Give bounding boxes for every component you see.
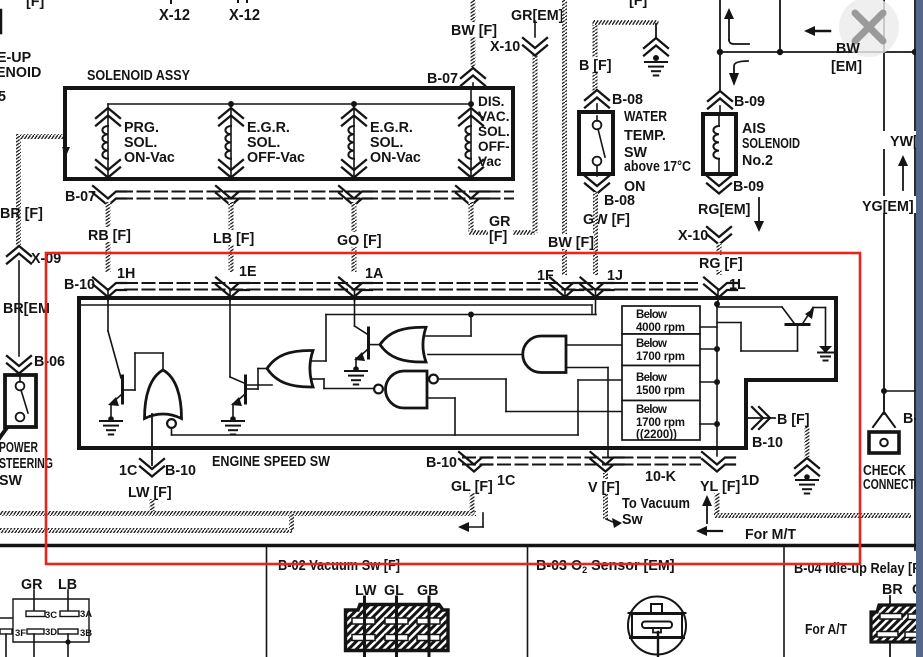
svg-text:[F]: [F] <box>629 0 647 9</box>
svg-text:B-10: B-10 <box>752 435 783 451</box>
svg-text:OFF-Vac: OFF-Vac <box>247 150 305 166</box>
svg-text:BR [F]: BR [F] <box>0 206 43 222</box>
svg-text:OFF-: OFF- <box>478 139 510 154</box>
svg-text:E.G.R.: E.G.R. <box>247 120 290 136</box>
svg-text:Below: Below <box>636 309 667 321</box>
svg-text:[EM]: [EM] <box>831 59 862 75</box>
svg-text:1500 rpm: 1500 rpm <box>636 385 685 397</box>
svg-text:ENOID: ENOID <box>0 65 41 81</box>
svg-text:10-K: 10-K <box>645 469 677 485</box>
svg-text:No.2: No.2 <box>742 153 773 169</box>
svg-text:LW [F]: LW [F] <box>128 485 172 501</box>
svg-text:CONNECTO: CONNECTO <box>863 477 923 493</box>
svg-text:above 17°C: above 17°C <box>624 159 691 175</box>
svg-text:ON-Vac: ON-Vac <box>370 150 421 166</box>
svg-text:For M/T: For M/T <box>745 527 796 543</box>
svg-text:[F]: [F] <box>26 0 44 10</box>
svg-text:RB [F]: RB [F] <box>88 228 131 244</box>
svg-text:ON: ON <box>624 179 645 195</box>
svg-text:5: 5 <box>0 89 6 105</box>
svg-text:TEMP.: TEMP. <box>624 128 666 144</box>
svg-text:SOL.: SOL. <box>247 135 280 151</box>
svg-text:SOLENOID ASSY: SOLENOID ASSY <box>87 68 190 84</box>
svg-text:1700 rpm: 1700 rpm <box>636 351 685 363</box>
svg-text:GR[EM]: GR[EM] <box>511 8 563 24</box>
svg-text:SOL.: SOL. <box>370 135 403 151</box>
svg-text:YG[EM]: YG[EM] <box>862 199 914 215</box>
svg-text:ON-Vac: ON-Vac <box>124 150 175 166</box>
svg-text:LB [F]: LB [F] <box>213 231 254 247</box>
svg-text:B-10: B-10 <box>165 463 196 479</box>
svg-text:1D: 1D <box>741 473 759 489</box>
svg-text:GL: GL <box>384 583 404 599</box>
svg-text:BW [F]: BW [F] <box>548 235 594 251</box>
svg-text:X-12: X-12 <box>159 7 190 24</box>
svg-text:1C: 1C <box>119 463 137 479</box>
svg-text:1J: 1J <box>607 268 623 284</box>
svg-text:3B: 3B <box>80 628 92 639</box>
svg-text:X-10: X-10 <box>678 228 708 244</box>
svg-text:3D: 3D <box>45 627 57 638</box>
svg-text:SW: SW <box>0 473 23 489</box>
svg-text:AIS: AIS <box>742 121 766 137</box>
svg-text:GO [F]: GO [F] <box>337 233 381 249</box>
svg-text:X-12: X-12 <box>229 7 260 24</box>
svg-text:DIS.: DIS. <box>478 94 504 109</box>
svg-text:E-UP: E-UP <box>0 50 32 66</box>
svg-text:SOL.: SOL. <box>124 135 157 151</box>
svg-text:RG[EM]: RG[EM] <box>698 202 750 218</box>
svg-text:B-09: B-09 <box>733 179 764 195</box>
svg-text:Below: Below <box>636 404 667 416</box>
svg-text:1E: 1E <box>239 264 257 280</box>
svg-text:GR: GR <box>21 577 43 593</box>
svg-text:B-06: B-06 <box>34 354 65 370</box>
svg-text:GR: GR <box>489 214 511 230</box>
svg-text:4000 rpm: 4000 rpm <box>636 322 685 334</box>
svg-text:[F]: [F] <box>489 229 507 245</box>
svg-text:B-08: B-08 <box>604 193 635 209</box>
svg-text:YL [F]: YL [F] <box>700 479 740 495</box>
svg-text:3F: 3F <box>15 628 26 639</box>
svg-text:VAC.: VAC. <box>478 109 509 124</box>
svg-text:Sw: Sw <box>622 512 644 528</box>
svg-text:B [F]: B [F] <box>579 58 612 74</box>
svg-text:B-10: B-10 <box>64 277 95 293</box>
svg-text:BW [F]: BW [F] <box>451 23 497 39</box>
svg-text:SOL.: SOL. <box>478 124 510 139</box>
svg-text:SOLENOID: SOLENOID <box>742 136 800 152</box>
svg-text:1A: 1A <box>365 266 383 282</box>
svg-text:ENGINE SPEED SW: ENGINE SPEED SW <box>212 454 330 470</box>
svg-text:B-10: B-10 <box>426 455 457 471</box>
svg-text:PRG.: PRG. <box>124 120 159 136</box>
svg-text:BR[EM: BR[EM <box>3 301 50 317</box>
svg-text:3A: 3A <box>80 609 92 620</box>
svg-text:Below: Below <box>636 372 667 384</box>
svg-text:B [F]: B [F] <box>777 412 810 428</box>
svg-text:1L: 1L <box>729 277 746 293</box>
svg-text:B-02 Vacuum Sw [F]: B-02 Vacuum Sw [F] <box>278 558 400 574</box>
svg-text:BW: BW <box>836 41 860 57</box>
svg-text:Below: Below <box>636 338 667 350</box>
svg-text:GL [F]: GL [F] <box>451 479 493 495</box>
svg-text:Vac: Vac <box>478 154 502 169</box>
svg-text:((2200)): ((2200)) <box>636 429 677 441</box>
svg-text:1F: 1F <box>537 268 554 284</box>
svg-text:WATER: WATER <box>624 109 668 125</box>
svg-text:1C: 1C <box>497 473 515 489</box>
svg-text:To Vacuum: To Vacuum <box>622 496 690 512</box>
svg-text:3C: 3C <box>45 610 57 621</box>
svg-text:B-09: B-09 <box>734 94 765 110</box>
svg-text:1700 rpm: 1700 rpm <box>636 417 685 429</box>
svg-text:BR: BR <box>882 582 903 598</box>
svg-text:1H: 1H <box>117 266 135 282</box>
svg-text:B-07: B-07 <box>427 71 458 87</box>
svg-text:E.G.R.: E.G.R. <box>370 120 413 136</box>
svg-text:X-10: X-10 <box>490 39 520 55</box>
svg-text:B-08: B-08 <box>612 92 643 108</box>
svg-text:B-07: B-07 <box>65 189 96 205</box>
svg-text:GW [F]: GW [F] <box>583 212 630 228</box>
svg-text:V [F]: V [F] <box>588 480 620 496</box>
svg-text:B-03 O2 Sensor [EM]: B-03 O2 Sensor [EM] <box>536 558 675 575</box>
svg-text:POWER: POWER <box>0 440 38 456</box>
svg-text:For A/T: For A/T <box>805 622 847 638</box>
svg-text:RG [F]: RG [F] <box>699 256 743 272</box>
